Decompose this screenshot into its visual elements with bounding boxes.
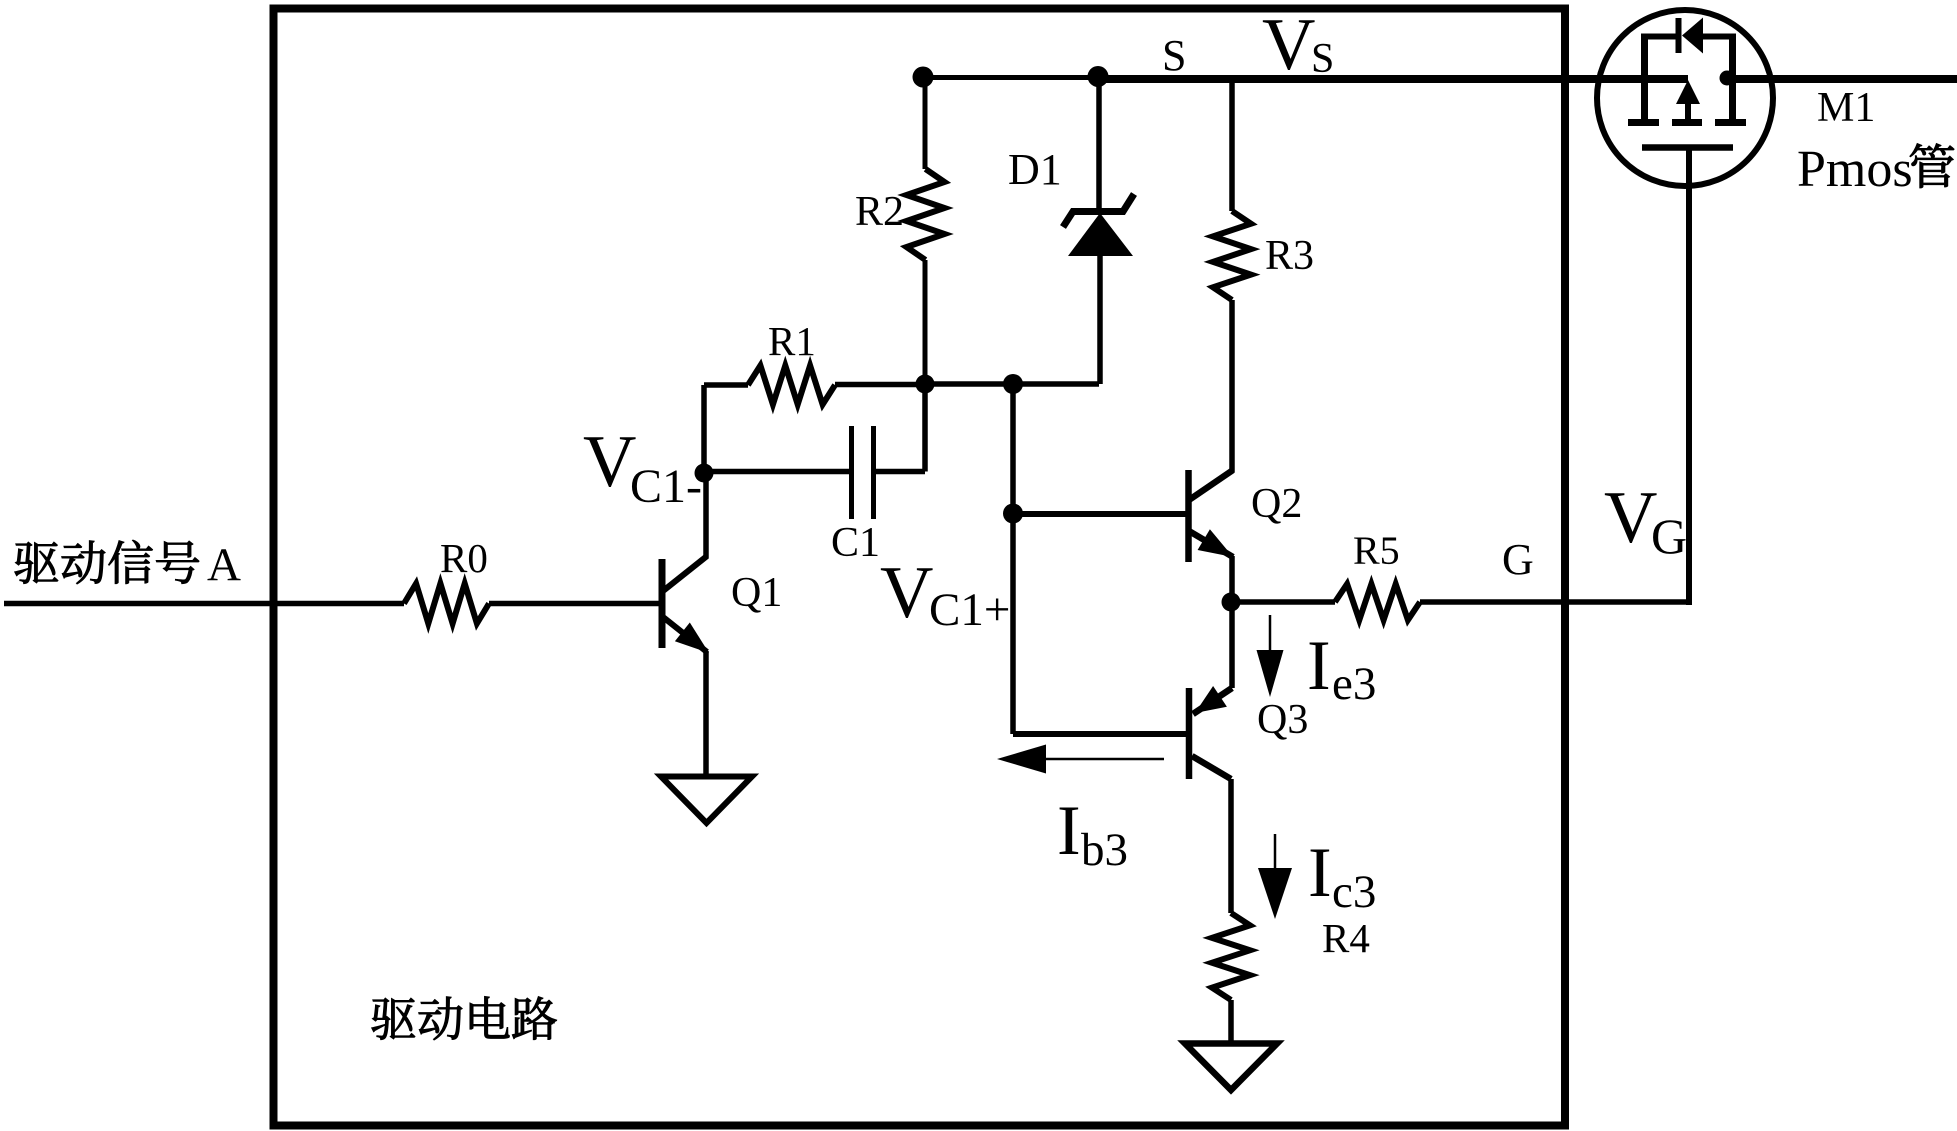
svg-text:b3: b3 xyxy=(1081,824,1128,876)
wire node A to node B xyxy=(925,381,1013,387)
node A (R1/R2/C1 junction) xyxy=(916,375,935,394)
zener diode D1 cathode xyxy=(1063,76,1134,227)
wire input to R0 xyxy=(4,601,404,607)
wire node B down to Q2 base xyxy=(1010,384,1016,734)
svg-text:R1: R1 xyxy=(768,318,816,364)
wire R2 bottom xyxy=(923,260,928,384)
current arrow I_e3 xyxy=(1257,615,1284,697)
wire node B to D1 anode xyxy=(1013,381,1099,387)
pmos M1 drain bar xyxy=(1729,36,1736,125)
svg-text:M1: M1 xyxy=(1817,85,1875,131)
svg-text:R3: R3 xyxy=(1265,233,1314,279)
svg-text:V: V xyxy=(880,552,933,634)
svg-text:Pmos: Pmos xyxy=(1797,141,1913,198)
svg-text:A: A xyxy=(207,539,241,591)
wire node D to R5 xyxy=(1231,599,1335,605)
label Pmos管 xyxy=(1797,141,1954,198)
driver circuit box 驱动电路 outline xyxy=(274,9,1566,1126)
wire node D down to Q3 emitter xyxy=(1229,602,1235,688)
label V_C1- xyxy=(583,421,702,513)
label V_G xyxy=(1604,477,1687,564)
node B (to Q2/Q3 bases) xyxy=(1003,374,1023,394)
wire S to M1 source (thick) xyxy=(1098,75,1957,83)
transistor Q2 emitter with arrow xyxy=(1189,529,1233,602)
node S-R2 top xyxy=(913,67,934,88)
svg-text:V: V xyxy=(583,421,636,503)
svg-text:Q3: Q3 xyxy=(1257,697,1308,743)
node VC1- xyxy=(695,464,714,483)
pmos M1 body diode wire xyxy=(1641,34,1736,40)
resistor R4 xyxy=(1212,913,1250,1000)
label 驱动信号 A (drive signal A) xyxy=(15,539,241,591)
label I_c3 xyxy=(1308,834,1376,918)
pmos M1 junction dot xyxy=(1720,71,1735,86)
svg-text:S: S xyxy=(1311,36,1334,82)
svg-text:D1: D1 xyxy=(1008,145,1062,194)
label V_S xyxy=(1262,4,1334,86)
wire R0 to Q1 base xyxy=(489,601,660,607)
wire R2 top xyxy=(923,77,928,169)
svg-text:c3: c3 xyxy=(1332,866,1376,918)
wire C1 to node A xyxy=(876,384,925,472)
svg-text:Q1: Q1 xyxy=(731,570,782,616)
capacitor C1 xyxy=(852,426,874,519)
svg-text:R4: R4 xyxy=(1322,915,1370,961)
transistor Q2 base bar xyxy=(1185,470,1192,562)
label V_C1+ xyxy=(880,552,1010,636)
transistor Q3 emitter with arrow xyxy=(1193,686,1232,714)
current arrow I_b3 xyxy=(997,745,1164,774)
svg-text:C1: C1 xyxy=(831,520,880,566)
wire R1 to node A xyxy=(835,382,925,388)
wire node VC1- up to R1 xyxy=(704,385,748,473)
wire R4 to ground xyxy=(1228,1000,1234,1045)
svg-text:C1-: C1- xyxy=(630,460,702,513)
transistor Q1 collector xyxy=(663,473,707,591)
transistor Q3 collector xyxy=(1192,756,1231,913)
resistor R1 xyxy=(748,366,835,405)
resistor R3 xyxy=(1213,211,1251,300)
wire R3 to Q2 collector xyxy=(1229,300,1235,472)
wire R5 to M1 gate xyxy=(1420,599,1692,605)
svg-text:R0: R0 xyxy=(440,535,488,581)
pmos M1 gate bar xyxy=(1642,144,1733,151)
wire R3 top xyxy=(1229,83,1235,211)
svg-text:R5: R5 xyxy=(1353,528,1400,573)
svg-text:I: I xyxy=(1057,792,1081,870)
wire Q3 base xyxy=(1013,731,1186,737)
svg-text:V: V xyxy=(1262,4,1315,86)
transistor Q1 emitter with arrow xyxy=(663,617,709,777)
pmos M1 body diode xyxy=(1679,18,1704,54)
svg-text:I: I xyxy=(1307,627,1331,705)
label I_b3 xyxy=(1057,792,1128,876)
pmos M1 circle xyxy=(1597,10,1773,186)
svg-text:C1+: C1+ xyxy=(929,584,1010,636)
label 驱动电路 (driver circuit) xyxy=(372,998,415,1040)
pmos M1 body arrow xyxy=(1676,80,1700,122)
svg-text:Q2: Q2 xyxy=(1251,481,1302,527)
wire node C to Q2 base xyxy=(1013,511,1186,517)
wire node S-R2 to D1 top xyxy=(923,75,1098,80)
svg-text:I: I xyxy=(1308,834,1332,912)
wire M1 gate lead down to G xyxy=(1686,147,1692,605)
zener diode D1 anode triangle xyxy=(1068,213,1133,384)
svg-text:G: G xyxy=(1651,508,1687,564)
transistor Q1 base bar xyxy=(659,559,666,648)
resistor R5 xyxy=(1335,584,1420,620)
svg-text:e3: e3 xyxy=(1332,658,1376,710)
transistor Q3 base bar xyxy=(1186,688,1193,779)
svg-text:V: V xyxy=(1604,477,1657,559)
svg-text:S: S xyxy=(1162,31,1186,80)
svg-text:G: G xyxy=(1502,535,1534,584)
node D (Q2 emitter / R5 / Q3) xyxy=(1222,593,1241,612)
ground below Q1 xyxy=(661,777,752,824)
wire VC1- node to C1 xyxy=(704,469,849,475)
pmos M1 source bar xyxy=(1641,36,1648,125)
label I_e3 xyxy=(1307,627,1376,710)
resistor R2 xyxy=(907,169,945,260)
resistor R0 xyxy=(404,584,489,624)
transistor Q2 collector xyxy=(1189,470,1233,500)
pmos M1 channel segments xyxy=(1628,119,1746,126)
current arrow I_c3 xyxy=(1258,834,1292,919)
node C (Q2 base junction) xyxy=(1003,504,1023,524)
ground below R4 xyxy=(1185,1044,1277,1091)
node D1 top xyxy=(1088,66,1109,87)
svg-text:R2: R2 xyxy=(855,189,904,235)
